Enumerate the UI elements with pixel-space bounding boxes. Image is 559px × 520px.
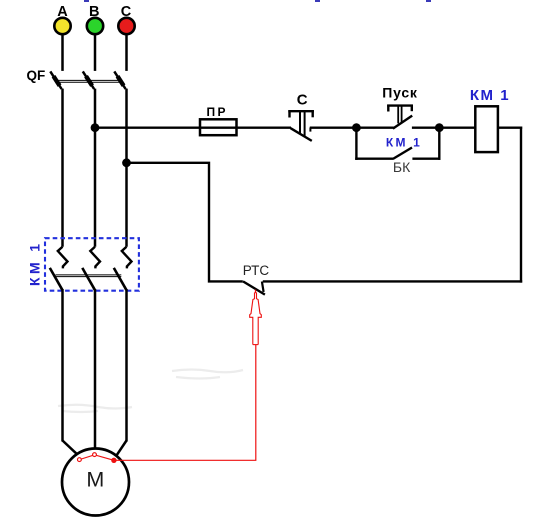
stop button C actuator	[288, 110, 314, 136]
KM1 main contacts mechanical linkage	[56, 275, 122, 277]
KM1 auxiliary contact BK branch wires	[355, 128, 440, 160]
red sensor wire motor to arrow corner	[114, 345, 256, 460]
PTC thermal contact	[243, 281, 265, 294]
wire KM1 pole3 down to motor	[125, 289, 128, 442]
red arrow outline pointing at PTC contact	[250, 292, 262, 344]
svg-text:М: М	[86, 467, 104, 491]
KM1 main contact pole 2 blade	[82, 268, 95, 290]
svg-text:ПР: ПР	[206, 105, 227, 119]
PTC sensor point 1 (open red dot)	[78, 458, 82, 462]
node: junction dot left of Pusk branch	[352, 123, 361, 132]
wire QF pole2 down to KM1 contact	[94, 89, 97, 247]
svg-text:КМ 1: КМ 1	[470, 87, 510, 104]
wire KM1 pole2 down to motor	[94, 289, 97, 449]
indicator lamp phase C (red)	[118, 18, 134, 34]
wire lamp B to QF	[94, 34, 97, 71]
node: junction dot phase C tap	[122, 158, 131, 167]
circuit breaker QF pole 3 blade	[114, 71, 125, 89]
PTC sensor red link polyline in motor	[79, 455, 114, 461]
control circuit wire from phase B tap to KM1 coil (y=128)	[95, 126, 475, 128]
wire QF pole3 down to KM1 contact	[125, 89, 128, 247]
contactor KM1 main contacts dashed outline box	[45, 238, 139, 291]
KM1 main contact pole 2 fixed zigzag	[90, 247, 100, 269]
wire coil to right rail	[498, 126, 522, 128]
svg-text:КМ 1: КМ 1	[386, 136, 422, 150]
svg-text:Пуск: Пуск	[382, 84, 418, 100]
circuit breaker QF mechanical linkage	[56, 80, 121, 82]
start button Pusk actuator	[387, 105, 413, 124]
bottom rail to PTC contact	[263, 280, 522, 282]
node: junction dot phase B tap	[91, 123, 100, 132]
svg-text:БК: БК	[393, 159, 411, 175]
KM1 auxiliary contact BK blade	[393, 148, 412, 159]
circuit breaker QF pole 1 blade	[50, 71, 61, 89]
motor M circle	[62, 449, 129, 516]
wire slant into motor phase C	[117, 441, 127, 456]
contactor coil KM1 body	[475, 106, 498, 152]
wire KM1 pole1 down to motor	[61, 289, 64, 442]
PTC sensor point 2 (open red dot)	[93, 453, 97, 457]
right rail down	[520, 127, 522, 283]
cropped text remnant 3	[426, 0, 431, 2]
wire slant into motor phase A	[63, 441, 78, 455]
wire lamp A to QF	[61, 34, 64, 71]
KM1 main contact pole 3 blade	[114, 268, 127, 290]
red arrow tip tick	[255, 290, 257, 294]
KM1 main contact pole 1 blade	[50, 268, 63, 290]
wire lamp C to QF	[125, 34, 128, 71]
svg-text:КМ 1: КМ 1	[27, 241, 43, 286]
svg-text:C: C	[297, 92, 308, 109]
svg-text:РТС: РТС	[243, 263, 270, 278]
cropped text remnant 1	[84, 0, 89, 2]
fuse PR body	[200, 119, 237, 135]
node: junction dot right of Pusk branch	[435, 123, 444, 132]
KM1 main contact pole 1 fixed zigzag	[58, 247, 68, 269]
indicator lamp phase B (green)	[87, 18, 103, 34]
cropped text remnant 2	[315, 0, 320, 2]
indicator lamp phase A (yellow)	[54, 18, 70, 34]
wire PTC left to phase C tap (via corner)	[127, 163, 243, 282]
wire QF pole1 down to KM1 contact	[61, 89, 64, 247]
PTC sensor point 3 (filled red dot)	[111, 458, 116, 463]
stop button C NC contact	[291, 128, 312, 141]
circuit breaker QF pole 2 blade	[83, 71, 94, 89]
start button Pusk NO contact blade	[393, 116, 412, 129]
KM1 main contact pole 3 fixed zigzag	[122, 247, 132, 269]
svg-text:QF: QF	[27, 68, 46, 83]
